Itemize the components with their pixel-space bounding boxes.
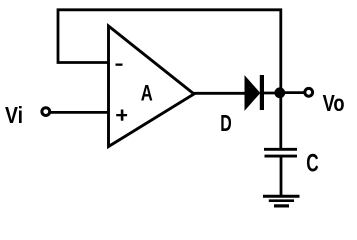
- output terminal Vo open circle: [305, 88, 313, 96]
- capacitor C top plate: [264, 148, 297, 151]
- op-amp inverting input pin label "-": [116, 64, 123, 66]
- svg-text:A: A: [141, 81, 153, 106]
- wire capacitor bottom plate to ground: [280, 156, 283, 196]
- wire op-amp output to diode anode: [191, 92, 246, 95]
- svg-text:Vi: Vi: [5, 102, 23, 128]
- diode D triangle (anode): [245, 77, 260, 110]
- capacitor C bottom plate: [265, 155, 298, 158]
- node junction dot (output node): [274, 87, 285, 98]
- op-amp U1 "A" triangle body: [109, 26, 195, 147]
- wire node down to capacitor top plate: [279, 93, 282, 149]
- wire Vi terminal to non-inverting input: [49, 111, 110, 114]
- ground symbol: [263, 196, 300, 206]
- svg-text:D: D: [220, 110, 232, 136]
- wire feedback loop: output node up, across top, down, into inverting input: [58, 10, 281, 93]
- svg-text:C: C: [306, 149, 318, 177]
- op-amp non-inverting input pin label "+": [116, 110, 127, 121]
- wire node to Vo terminal: [281, 91, 304, 94]
- svg-text:Vo: Vo: [323, 90, 345, 116]
- input terminal Vi open circle: [42, 108, 50, 116]
- diode D cathode bar: [260, 75, 264, 110]
- wire diode cathode to node: [263, 92, 281, 95]
